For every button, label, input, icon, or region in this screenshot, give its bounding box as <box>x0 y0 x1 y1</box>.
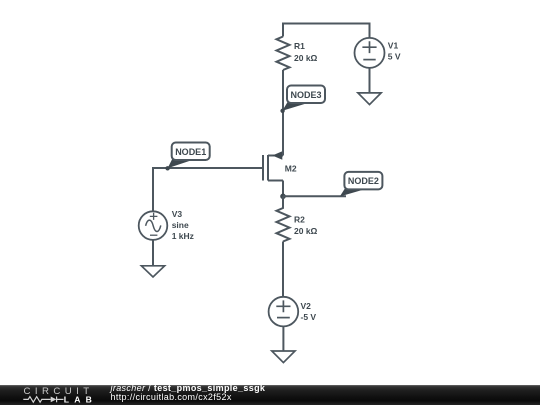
voltage source V1 <box>355 38 401 68</box>
svg-text:NODE1: NODE1 <box>175 147 206 157</box>
wire <box>283 24 370 38</box>
voltage source V3 <box>139 209 194 241</box>
resistor R2 <box>277 196 318 241</box>
wire <box>282 140 284 156</box>
voltage source V2 <box>269 297 317 327</box>
svg-text:V3: V3 <box>172 209 183 219</box>
svg-text:LAB: LAB <box>64 395 97 405</box>
svg-text:20 kΩ: 20 kΩ <box>294 226 318 236</box>
resistor R1 <box>277 37 318 71</box>
node NODE2 <box>340 172 383 197</box>
svg-text:-5 V: -5 V <box>301 312 317 322</box>
footer text <box>111 384 266 403</box>
svg-text:R1: R1 <box>294 41 305 51</box>
wire <box>283 195 346 197</box>
footer bar <box>0 385 540 405</box>
svg-text:V1: V1 <box>388 41 399 51</box>
ground <box>358 68 381 105</box>
svg-text:5 V: 5 V <box>388 52 401 62</box>
junction <box>280 194 286 200</box>
svg-text:1 kHz: 1 kHz <box>172 231 194 241</box>
svg-text:NODE3: NODE3 <box>290 90 321 100</box>
wire <box>282 181 284 197</box>
node NODE1 <box>165 143 209 171</box>
wire <box>282 242 284 297</box>
svg-text:sine: sine <box>172 220 189 230</box>
svg-text:NODE2: NODE2 <box>348 176 379 186</box>
svg-text:M2: M2 <box>285 163 297 173</box>
svg-text:V2: V2 <box>301 301 312 311</box>
wire <box>153 168 262 211</box>
transistor M2 <box>263 151 297 180</box>
wire <box>282 70 284 156</box>
ground <box>141 240 164 277</box>
ground <box>272 327 295 363</box>
svg-text:R2: R2 <box>294 214 305 224</box>
node NODE3 <box>280 86 325 114</box>
CircuitLab logo <box>0 385 110 405</box>
svg-text:20 kΩ: 20 kΩ <box>294 53 318 63</box>
